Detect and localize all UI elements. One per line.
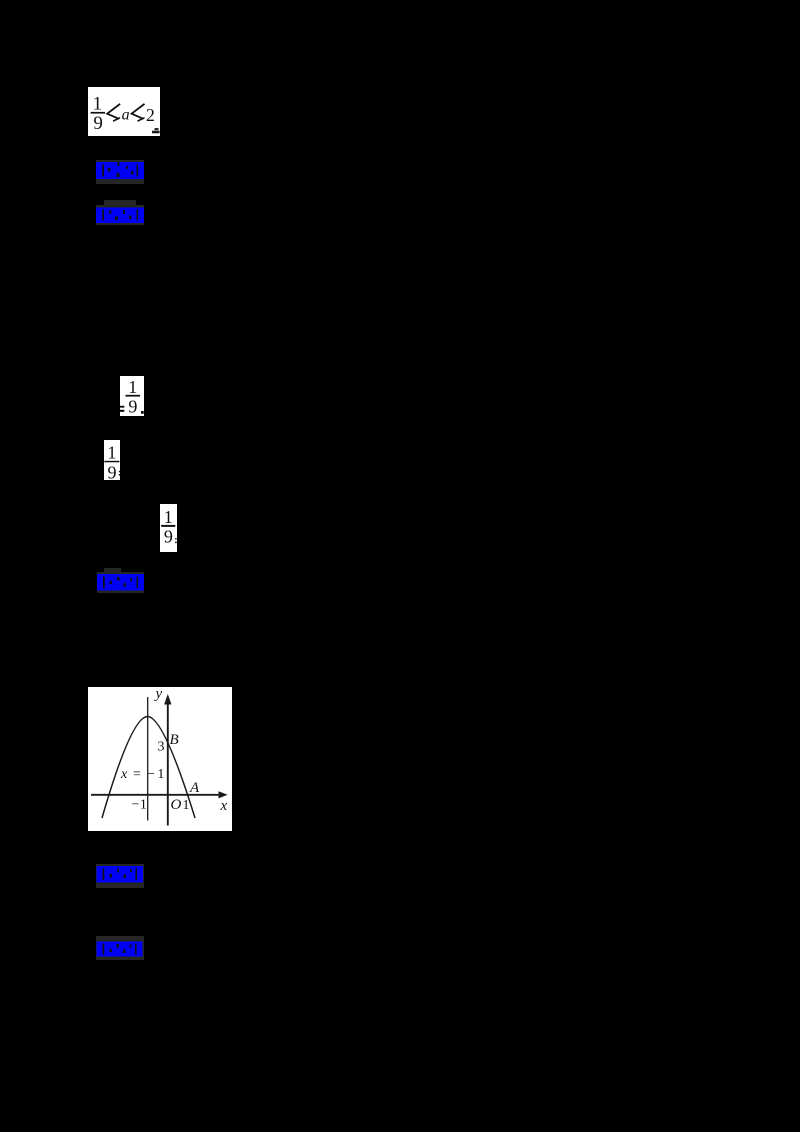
svg-text:9: 9	[128, 396, 137, 416]
svg-text:2: 2	[146, 105, 155, 125]
axis of symmetry x=-1	[147, 697, 149, 821]
blue label L3 (comment)	[97, 568, 144, 593]
colon marks at right edge	[119, 471, 120, 473]
small dark mark bottom-right of F1	[152, 131, 160, 134]
colon marks at right edge	[175, 538, 176, 540]
svg-text:x: x	[220, 798, 228, 814]
blue label L2 (answer)	[96, 200, 144, 225]
svg-text:1: 1	[107, 443, 116, 463]
small mark right bottom	[141, 411, 144, 414]
svg-text:9: 9	[108, 462, 117, 480]
svg-text:9: 9	[164, 526, 173, 546]
svg-text:a: a	[122, 106, 130, 123]
svg-text:O: O	[171, 797, 182, 813]
svg-text:A: A	[189, 780, 200, 796]
formula image box F4: fraction 1/9	[160, 504, 177, 552]
x axis	[91, 794, 221, 796]
svg-text:1: 1	[93, 93, 103, 114]
svg-text:B: B	[170, 732, 179, 748]
y axis	[167, 701, 169, 826]
partial equals sign at left edge	[120, 406, 124, 408]
svg-text:−1: −1	[132, 798, 148, 813]
blue label L1 (analysis)	[96, 160, 144, 184]
formula image box F3: fraction 1/9	[104, 440, 120, 480]
svg-text:9: 9	[93, 113, 103, 134]
svg-text:y: y	[154, 687, 163, 702]
svg-text:1: 1	[164, 507, 173, 527]
svg-text:1: 1	[183, 798, 190, 813]
blue label L5 (answer)	[96, 936, 144, 960]
graph image box: parabola figure	[88, 687, 232, 831]
svg-text:3: 3	[158, 740, 165, 755]
svg-text:1: 1	[128, 377, 137, 397]
parabola	[102, 717, 195, 819]
formula image box F2: fraction 1/9	[120, 376, 144, 416]
blue label L4 (analysis)	[96, 864, 144, 888]
leq a leq 2	[107, 104, 120, 119]
formula image box F1: 1/9 <= a <= 2	[88, 87, 160, 136]
